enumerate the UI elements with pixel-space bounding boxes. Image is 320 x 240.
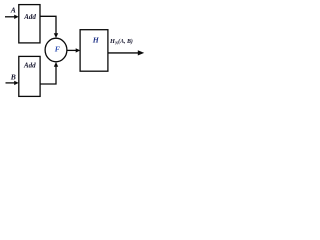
block H [80, 30, 108, 71]
svg-text:Add: Add [23, 62, 36, 70]
block Add (top) [19, 5, 40, 43]
svg-text:HN(A, B): HN(A, B) [109, 38, 133, 46]
svg-text:F: F [55, 44, 60, 53]
wire arrow B into bottom Add [6, 82, 15, 84]
wire arrow F to H [67, 49, 77, 51]
svg-text:B: B [10, 73, 16, 82]
output wire arrow [108, 52, 139, 54]
op F circle [45, 38, 67, 62]
svg-text:Add: Add [23, 13, 36, 21]
wire arrow A into top Add [5, 16, 15, 18]
wire from top Add to F circle [40, 16, 56, 33]
block Add (bottom) [19, 56, 40, 96]
svg-text:A: A [10, 6, 16, 15]
wire from bottom Add to F circle [40, 66, 56, 84]
svg-text:H: H [92, 36, 100, 45]
